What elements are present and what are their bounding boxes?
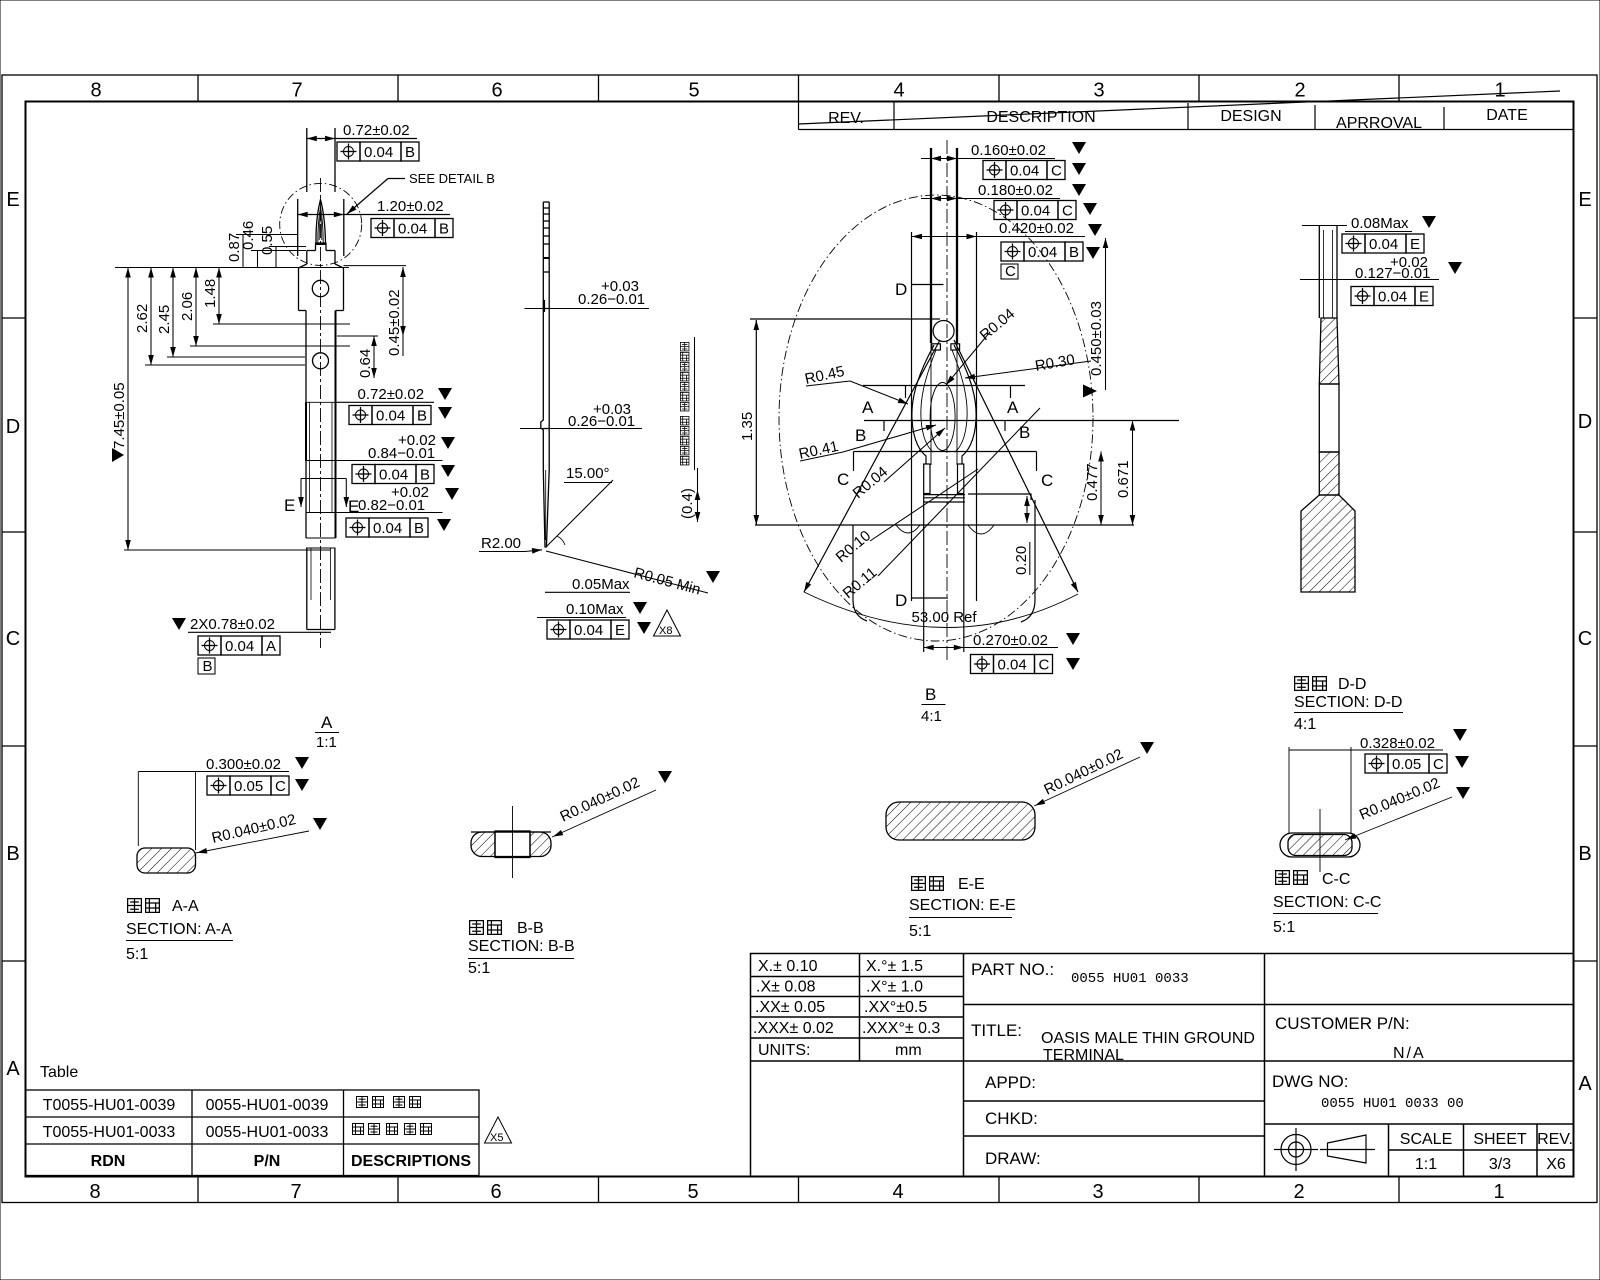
svg-text:.XX°±0.5: .XX°±0.5 — [864, 999, 927, 1016]
step rects under knob — [932, 344, 941, 350]
step 0.84 — [306, 460, 336, 462]
svg-text:.X± 0.08: .X± 0.08 — [756, 979, 816, 996]
tolerance table text — [753, 958, 940, 1059]
svg-text:X8: X8 — [659, 625, 672, 637]
svg-text:1.35: 1.35 — [739, 412, 756, 441]
pin shaft edges — [930, 148, 932, 343]
centerline — [946, 140, 948, 660]
svg-text:5:1: 5:1 — [1273, 919, 1295, 936]
centerline — [320, 178, 322, 648]
svg-text:A: A — [321, 713, 333, 732]
svg-text:X.°± 1.5: X.°± 1.5 — [866, 958, 923, 975]
vertical CJK note — [694, 337, 696, 470]
svg-text:SECTION: C-C: SECTION: C-C — [1273, 894, 1381, 911]
svg-text:2.45: 2.45 — [156, 305, 173, 334]
view1 left dimensions — [111, 221, 350, 550]
svg-text:2.06: 2.06 — [179, 292, 196, 321]
svg-text:RDN: RDN — [91, 1153, 126, 1170]
tail — [306, 548, 308, 630]
dim line 0.72 top — [307, 138, 417, 140]
svg-text:4:1: 4:1 — [921, 708, 942, 725]
svg-text:0.26−0.01: 0.26−0.01 — [568, 413, 635, 430]
svg-text:B: B — [1019, 423, 1030, 442]
svg-text:6: 6 — [491, 80, 502, 102]
leaf inner ellipse — [930, 383, 955, 451]
svg-text:E: E — [284, 496, 295, 515]
svg-text:PART NO.:: PART NO.: — [971, 960, 1054, 979]
svg-text:E: E — [6, 189, 19, 211]
svg-text:0.72±0.02: 0.72±0.02 — [358, 386, 425, 403]
2X0.78 dim — [172, 618, 186, 630]
svg-text:SECTION: B-B: SECTION: B-B — [468, 938, 575, 955]
shoulders — [307, 250, 316, 252]
cut line B-B — [864, 420, 1179, 422]
svg-text:0.10Max: 0.10Max — [566, 601, 624, 618]
detail circle — [280, 183, 362, 265]
svg-text:mm: mm — [895, 1042, 922, 1059]
svg-text:C: C — [1578, 628, 1592, 650]
1.35 dim — [755, 320, 757, 525]
cone lines — [804, 340, 940, 592]
svg-text:DESCRIPTIONS: DESCRIPTIONS — [351, 1153, 471, 1170]
svg-text:1:1: 1:1 — [316, 734, 337, 751]
svg-text:APPD:: APPD: — [985, 1073, 1036, 1092]
(0.4) — [697, 468, 699, 522]
bottom zone dividers — [197, 1177, 199, 1203]
CJK desc row2: 电镀后端子 — [353, 1124, 432, 1135]
projection symbol — [1274, 1128, 1375, 1171]
svg-text:R2.00: R2.00 — [481, 535, 521, 552]
svg-text:.X°± 1.0: .X°± 1.0 — [866, 979, 923, 996]
svg-text:8: 8 — [90, 80, 101, 102]
svg-text:R0.040±0.02: R0.040±0.02 — [558, 774, 643, 826]
svg-text:DESCRIPTION: DESCRIPTION — [986, 109, 1095, 126]
svg-text:A: A — [1578, 1073, 1592, 1095]
cut line C-C — [854, 451, 1037, 453]
D-D cut line — [911, 232, 913, 601]
svg-text:0.26−0.01: 0.26−0.01 — [578, 291, 645, 308]
R labels — [977, 305, 1019, 344]
svg-text:0.08Max: 0.08Max — [1351, 215, 1409, 232]
neck — [315, 244, 317, 251]
svg-text:B: B — [925, 685, 936, 704]
svg-text:8: 8 — [89, 1181, 100, 1203]
svg-text:2: 2 — [1293, 1181, 1304, 1203]
svg-text:C: C — [1005, 263, 1016, 280]
svg-text:15.00°: 15.00° — [566, 465, 610, 482]
svg-text:1.48: 1.48 — [202, 279, 219, 308]
svg-text:0.05Max: 0.05Max — [572, 576, 630, 593]
right zone dividers — [1574, 317, 1598, 319]
flange chamfer — [299, 264, 307, 268]
svg-text:T0055-HU01-0039: T0055-HU01-0039 — [43, 1097, 176, 1114]
svg-text:C: C — [6, 628, 20, 650]
ext lines — [923, 494, 925, 652]
svg-text:3/3: 3/3 — [1489, 1156, 1511, 1173]
svg-text:SHEET: SHEET — [1473, 1131, 1527, 1148]
svg-text:53.00 Ref: 53.00 Ref — [912, 609, 978, 626]
top dim 0.72 ext lines — [306, 128, 308, 192]
svg-text:5: 5 — [688, 80, 699, 102]
2.62 / 2.45 / 2.06 / 1.48 — [150, 268, 152, 366]
svg-text:C: C — [1041, 471, 1053, 490]
pin tip flame — [316, 200, 326, 244]
svg-text:5:1: 5:1 — [909, 923, 931, 940]
svg-text:6: 6 — [490, 1181, 501, 1203]
svg-text:D-D: D-D — [1338, 676, 1366, 693]
svg-text:A: A — [862, 398, 874, 417]
svg-text:0.671: 0.671 — [1115, 460, 1132, 498]
svg-text:4:1: 4:1 — [1294, 716, 1316, 733]
svg-text:B: B — [855, 426, 866, 445]
hole 2 — [313, 353, 329, 369]
cross lines below — [924, 494, 965, 496]
7.45 — [127, 268, 129, 551]
step 0.82 — [306, 512, 336, 514]
0.08Max dim — [1302, 225, 1347, 227]
step 0.72 — [306, 401, 336, 403]
svg-text:DATE: DATE — [1486, 107, 1527, 124]
body — [305, 311, 307, 403]
svg-text:CUSTOMER P/N:: CUSTOMER P/N: — [1275, 1014, 1410, 1033]
svg-text:2.62: 2.62 — [134, 304, 151, 333]
view1 right dimensions — [172, 266, 459, 751]
svg-text:D: D — [895, 591, 907, 610]
flange top line — [755, 524, 1134, 526]
svg-text:4: 4 — [893, 80, 904, 102]
svg-text:0.127−0.01: 0.127−0.01 — [1355, 265, 1431, 282]
svg-text:CHKD:: CHKD: — [985, 1109, 1038, 1128]
svg-text:(0.4): (0.4) — [679, 488, 696, 519]
svg-text:APRROVAL: APRROVAL — [1336, 115, 1422, 132]
svg-text:.XX± 0.05: .XX± 0.05 — [755, 999, 825, 1016]
svg-text:C: C — [837, 470, 849, 489]
svg-text:0.328±0.02: 0.328±0.02 — [1360, 735, 1435, 752]
svg-text:R0.05 Min: R0.05 Min — [632, 564, 702, 598]
CJK desc row1: 素材端子 — [357, 1097, 421, 1108]
svg-text:Table: Table — [40, 1064, 78, 1081]
svg-text:D: D — [6, 416, 20, 438]
svg-text:0.46: 0.46 — [240, 221, 257, 250]
svg-text:TERMINAL: TERMINAL — [1043, 1047, 1124, 1064]
svg-text:0055 HU01 0033 00: 0055 HU01 0033 00 — [1321, 1096, 1464, 1112]
svg-text:R0.040±0.02: R0.040±0.02 — [1041, 746, 1126, 799]
svg-text:1: 1 — [1494, 80, 1505, 102]
svg-text:0.82−0.01: 0.82−0.01 — [358, 497, 425, 514]
svg-text:X.± 0.10: X.± 0.10 — [758, 958, 818, 975]
svg-text:0.45±0.02: 0.45±0.02 — [386, 289, 403, 356]
svg-text:A: A — [1007, 398, 1019, 417]
svg-text:SEE DETAIL B: SEE DETAIL B — [409, 171, 495, 186]
svg-text:B-B: B-B — [517, 920, 544, 937]
svg-text:R0.04: R0.04 — [977, 305, 1019, 344]
svg-text:0.72±0.02: 0.72±0.02 — [343, 122, 410, 139]
labels — [1295, 677, 1327, 691]
15.00 angle — [546, 480, 614, 548]
left zone dividers — [2, 317, 26, 319]
svg-text:7: 7 — [290, 1181, 301, 1203]
contact bars — [924, 464, 930, 494]
svg-text:REV.: REV. — [828, 110, 864, 127]
svg-text:R0.040±0.02: R0.040±0.02 — [1357, 775, 1443, 824]
svg-text:0.300±0.02: 0.300±0.02 — [206, 756, 281, 773]
leaf outer — [912, 345, 934, 464]
svg-text:D: D — [895, 280, 907, 299]
dim 1.20 — [297, 199, 299, 256]
svg-text:3: 3 — [1092, 1181, 1103, 1203]
svg-text:7: 7 — [291, 80, 302, 102]
right vertical dims — [1105, 238, 1107, 390]
svg-text:SECTION: E-E: SECTION: E-E — [909, 897, 1016, 914]
svg-text:DRAW:: DRAW: — [985, 1149, 1041, 1168]
svg-text:T0055-HU01-0033: T0055-HU01-0033 — [43, 1124, 176, 1141]
rev triangle X5 — [485, 1117, 512, 1144]
svg-text:0.84−0.01: 0.84−0.01 — [368, 445, 435, 462]
svg-text:0.180±0.02: 0.180±0.02 — [978, 182, 1053, 199]
svg-text:OASIS MALE THIN GROUND: OASIS MALE THIN GROUND — [1041, 1030, 1255, 1047]
FCF — [547, 620, 629, 639]
svg-text:REV.: REV. — [1537, 1131, 1573, 1148]
top zone dividers — [197, 75, 199, 102]
svg-text:E-E: E-E — [958, 876, 985, 893]
svg-text:R0.11: R0.11 — [840, 564, 881, 602]
svg-text:R0.30: R0.30 — [1034, 351, 1076, 375]
tip line — [750, 318, 940, 320]
svg-text:B: B — [203, 658, 213, 675]
svg-text:5: 5 — [687, 1181, 698, 1203]
svg-text:0.477: 0.477 — [1084, 463, 1101, 501]
detail boundary ellipse — [779, 195, 1093, 641]
svg-text:P/N: P/N — [254, 1153, 281, 1170]
svg-text:4: 4 — [892, 1181, 903, 1203]
svg-text:7.45±0.05: 7.45±0.05 — [111, 382, 128, 449]
svg-text:1:1: 1:1 — [1415, 1156, 1437, 1173]
svg-text:R0.41: R0.41 — [797, 438, 840, 463]
svg-text:UNITS:: UNITS: — [758, 1042, 810, 1059]
svg-text:0.20: 0.20 — [1013, 546, 1030, 575]
svg-text:0.450±0.03: 0.450±0.03 — [1088, 301, 1105, 376]
profile outline — [541, 202, 545, 548]
0.87 / 0.46 / 0.55 — [242, 235, 244, 268]
svg-text:1.20±0.02: 1.20±0.02 — [377, 198, 444, 215]
triangle X8 — [654, 610, 681, 636]
svg-text:D: D — [1578, 411, 1592, 433]
svg-text:.XXX°± 0.3: .XXX°± 0.3 — [862, 1020, 940, 1037]
svg-text:0055-HU01-0039: 0055-HU01-0039 — [206, 1097, 329, 1114]
svg-text:0.420±0.02: 0.420±0.02 — [999, 220, 1074, 237]
svg-text:.XXX± 0.02: .XXX± 0.02 — [753, 1020, 834, 1037]
svg-text:2: 2 — [1294, 80, 1305, 102]
svg-text:X5: X5 — [490, 1132, 503, 1144]
svg-text:X6: X6 — [1546, 1156, 1566, 1173]
svg-text:0.270±0.02: 0.270±0.02 — [973, 632, 1048, 649]
svg-text:SECTION: A-A: SECTION: A-A — [126, 921, 232, 938]
svg-text:B: B — [1578, 843, 1591, 865]
svg-text:N/A: N/A — [1393, 1045, 1426, 1062]
0.127 dim — [1300, 279, 1439, 281]
paddle edges — [853, 525, 867, 621]
svg-text:0055 HU01 0033: 0055 HU01 0033 — [1071, 971, 1189, 987]
svg-text:SCALE: SCALE — [1400, 1131, 1452, 1148]
svg-text:A-A: A-A — [172, 898, 199, 915]
step at 310.5 — [299, 310, 307, 312]
R0.05 Min — [546, 551, 708, 593]
svg-text:2X0.78±0.02: 2X0.78±0.02 — [190, 616, 275, 633]
hole 1 — [312, 280, 328, 296]
svg-text:3: 3 — [1093, 80, 1104, 102]
svg-text:SECTION: D-D: SECTION: D-D — [1294, 694, 1402, 711]
svg-text:0055-HU01-0033: 0055-HU01-0033 — [206, 1124, 329, 1141]
leaf middle — [921, 350, 936, 452]
svg-text:0.160±0.02: 0.160±0.02 — [971, 142, 1046, 159]
knob — [933, 321, 954, 342]
svg-text:0.64: 0.64 — [357, 349, 374, 378]
svg-text:5:1: 5:1 — [126, 946, 148, 963]
svg-text:C-C: C-C — [1322, 871, 1350, 888]
cut line A-A — [863, 385, 1025, 387]
svg-text:TITLE:: TITLE: — [971, 1021, 1022, 1040]
svg-text:DWG NO:: DWG NO: — [1272, 1072, 1349, 1091]
svg-text:DESIGN: DESIGN — [1220, 108, 1281, 125]
svg-text:1: 1 — [1493, 1181, 1504, 1203]
svg-text:B: B — [6, 843, 19, 865]
hatched blade — [1319, 318, 1339, 384]
svg-text:E: E — [1578, 189, 1591, 211]
notches — [896, 525, 920, 533]
svg-text:5:1: 5:1 — [468, 960, 490, 977]
svg-text:A: A — [6, 1058, 20, 1080]
svg-text:0.55: 0.55 — [259, 226, 276, 255]
